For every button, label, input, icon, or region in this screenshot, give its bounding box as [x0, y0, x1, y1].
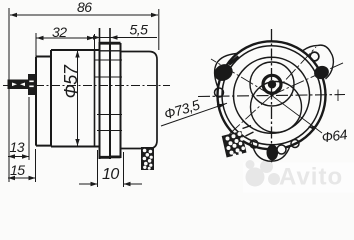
svg-text:Avito: Avito	[279, 164, 343, 191]
svg-text:13: 13	[10, 139, 25, 155]
svg-text:10: 10	[102, 166, 119, 183]
svg-text:32: 32	[52, 24, 67, 40]
svg-text:15: 15	[10, 162, 25, 178]
svg-text:86: 86	[77, 0, 92, 15]
svg-text:5,5: 5,5	[130, 22, 149, 38]
svg-text:Ф57: Ф57	[61, 64, 81, 98]
